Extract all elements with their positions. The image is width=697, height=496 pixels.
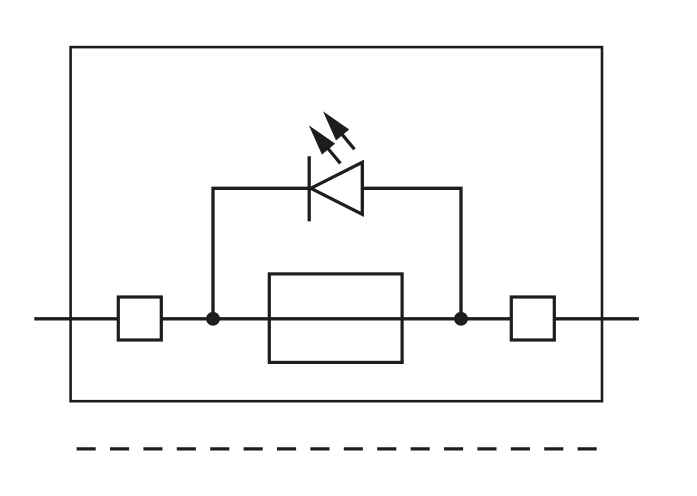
- clamp contact right: [511, 297, 554, 340]
- wire: LED branch top right segment and right riser: [361, 188, 461, 318]
- wire: main horizontal conductor: [34, 317, 639, 320]
- terminal block outline: [71, 47, 602, 401]
- dashed mounting rail line: [77, 447, 597, 450]
- LED D1 anode triangle: [311, 162, 363, 214]
- clamp contact left: [118, 297, 161, 340]
- fuse F1: [269, 274, 402, 363]
- LED light emission arrow 1: [302, 120, 347, 169]
- LED light emission arrow 2: [316, 106, 361, 155]
- wire: LED branch left riser and top segment: [213, 188, 311, 318]
- node junction right: [454, 312, 468, 326]
- node junction left: [206, 312, 220, 326]
- LED D1 cathode bar: [308, 156, 311, 221]
